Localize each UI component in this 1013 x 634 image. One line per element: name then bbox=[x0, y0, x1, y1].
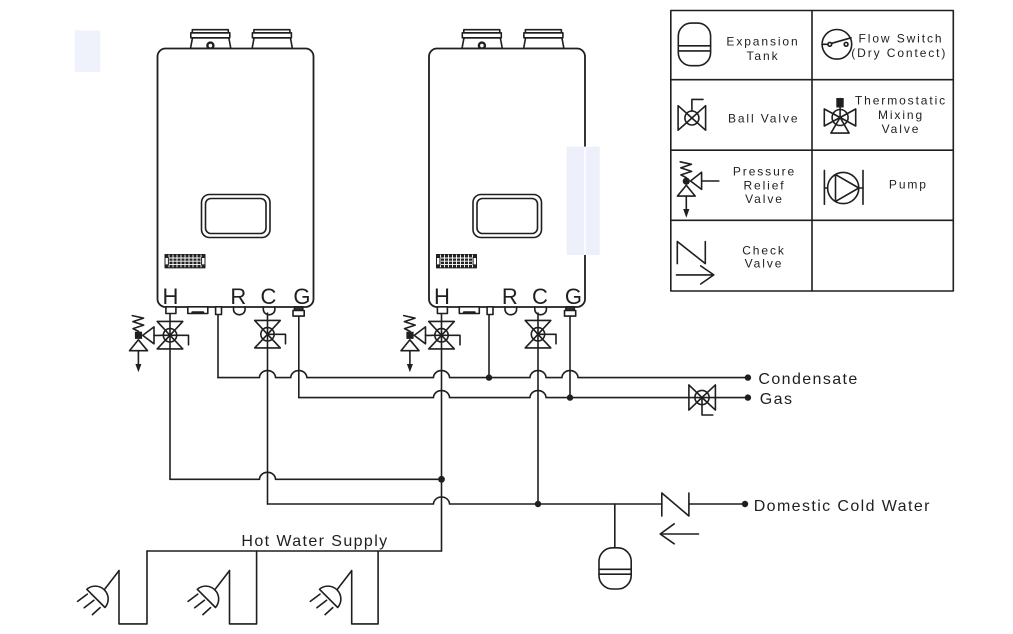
svg-text:G: G bbox=[565, 284, 582, 309]
node: cold water junction heater 2 C bbox=[535, 501, 541, 507]
wire: shower 2 piping bbox=[230, 551, 257, 624]
legend symbol: expansion tank bbox=[678, 23, 710, 66]
shower 3 arm bbox=[337, 571, 352, 591]
wire: heater 2 gas vertical pipe (G) bbox=[569, 316, 571, 398]
heater 1 body bbox=[158, 49, 314, 308]
heater 1 R port stub bbox=[216, 307, 222, 315]
node: cold water terminal dot bbox=[742, 501, 748, 507]
legend symbol: ball valve bbox=[678, 99, 706, 130]
node: condensate terminal dot bbox=[745, 374, 751, 380]
pressure relief valve PRV2 (heater 2 hot line) bbox=[401, 316, 432, 373]
water heater 2 bbox=[429, 30, 585, 316]
heater 2 display panel bbox=[473, 195, 542, 238]
legend table frame bbox=[671, 11, 954, 292]
wire: heater 1 hot water vertical pipe (H) bbox=[169, 313, 171, 479]
heater 1 G port stub bbox=[293, 307, 304, 316]
shower 2 spray lines bbox=[188, 594, 211, 615]
svg-text:C: C bbox=[532, 284, 548, 309]
legend label: Flow Switch (Dry Contect) bbox=[851, 32, 947, 60]
wire: gas horizontal line with crossover hops bbox=[299, 391, 748, 398]
wire: heater 1 recirculation pipe (R) bbox=[217, 315, 219, 378]
ball valve on heater 2 C pipe bbox=[525, 320, 556, 348]
expansion tank on cold water line bbox=[599, 504, 631, 589]
heater 2 vent grille bbox=[437, 255, 477, 268]
legend symbol: check valve bbox=[676, 242, 713, 285]
heater 1 display panel bbox=[202, 195, 271, 238]
legend symbol: thermostatic mixing valve bbox=[824, 98, 855, 133]
svg-text:Pump: Pump bbox=[889, 178, 928, 192]
heater 1 wide bottom stub bbox=[188, 307, 208, 314]
shower 3 bbox=[310, 551, 378, 624]
node: hot water junction bbox=[438, 476, 445, 483]
wire: domestic cold water horizontal line with crossover hop bbox=[268, 497, 746, 504]
wire: condensate horizontal line with crossover hops bbox=[218, 371, 748, 378]
wire: heater 2 cold water vertical pipe (C) bbox=[537, 313, 539, 504]
svg-text:Pressure: Pressure bbox=[733, 165, 796, 179]
svg-text:Gas: Gas bbox=[760, 391, 794, 408]
wire: heater 1 gas vertical pipe (G) bbox=[298, 316, 300, 398]
heater 1 vent grille bbox=[165, 255, 205, 268]
svg-text:Valve: Valve bbox=[882, 122, 921, 136]
node: condensate junction heater 2 R bbox=[486, 374, 492, 380]
shower 2 head bbox=[197, 586, 218, 607]
node: gas terminal dot bbox=[745, 394, 751, 400]
svg-text:Relief: Relief bbox=[743, 179, 785, 193]
heater 2 left vent collar bbox=[462, 30, 502, 49]
shower 1 spray lines bbox=[78, 594, 101, 615]
svg-text:R: R bbox=[502, 284, 518, 309]
svg-text:Thermostatic: Thermostatic bbox=[855, 94, 947, 108]
heater 1 H port stub bbox=[166, 307, 176, 314]
shower 3 spray lines bbox=[310, 594, 333, 615]
svg-text:Hot Water Supply: Hot Water Supply bbox=[241, 533, 388, 550]
shower 2 arm bbox=[214, 571, 229, 591]
pressure relief valve PRV1 (heater 1 hot line) bbox=[130, 316, 161, 373]
legend label: Pressure Relief Valve bbox=[733, 165, 796, 206]
legend symbol: pressure relief valve bbox=[677, 162, 718, 218]
heater 1 fitting arc under R bbox=[234, 307, 246, 315]
svg-text:H: H bbox=[434, 284, 450, 309]
heater 2 wide bottom stub bbox=[459, 307, 479, 314]
svg-text:R: R bbox=[230, 284, 246, 309]
shower 3 head bbox=[320, 586, 341, 607]
shower 1 arm bbox=[104, 571, 119, 591]
svg-text:Condensate: Condensate bbox=[758, 371, 858, 388]
node: gas junction heater 2 G bbox=[567, 394, 573, 400]
svg-text:Mixing: Mixing bbox=[878, 108, 924, 122]
heater 2 body bbox=[429, 49, 585, 308]
heater 2 fitting arc under R bbox=[505, 307, 517, 315]
ball valve on heater 1 H pipe bbox=[157, 321, 188, 349]
water heater 1 bbox=[158, 30, 314, 316]
svg-text:Expansion: Expansion bbox=[726, 35, 799, 49]
shower 1 bbox=[78, 551, 147, 624]
wire: shower 3 piping bbox=[352, 551, 378, 624]
wire: heater 1 cold water vertical pipe (C) bbox=[267, 313, 269, 504]
legend label: Expansion Tank bbox=[726, 35, 799, 63]
svg-text:H: H bbox=[163, 284, 179, 309]
svg-text:(Dry Contect): (Dry Contect) bbox=[851, 46, 947, 60]
check valve on domestic cold water line bbox=[660, 493, 698, 544]
shower 2 bbox=[188, 551, 257, 624]
heater 1 right vent collar bbox=[252, 30, 292, 49]
svg-text:Tank: Tank bbox=[747, 49, 780, 63]
svg-text:Valve: Valve bbox=[745, 256, 784, 270]
heater 2 H port stub bbox=[437, 307, 447, 314]
svg-text:G: G bbox=[293, 284, 310, 309]
heater 1 fitting arc under C bbox=[263, 307, 275, 315]
wire: heater 2 hot water vertical pipe (H) bbox=[441, 313, 443, 551]
wire: shower 1 piping bbox=[119, 551, 147, 624]
wire: hot water supply line bbox=[147, 550, 442, 552]
heater 1 left vent collar bbox=[191, 30, 231, 49]
wire: hot water horizontal line with crossover hop bbox=[170, 472, 442, 479]
legend label: Check Valve bbox=[742, 244, 786, 271]
svg-text:Flow Switch: Flow Switch bbox=[859, 32, 944, 46]
wire: heater 2 recirculation pipe (R) bbox=[488, 315, 490, 378]
watermark rectangle over heater 2 bbox=[567, 147, 600, 255]
ball valve on heater 2 H pipe bbox=[429, 321, 460, 349]
heater 2 fitting arc under C bbox=[535, 307, 547, 315]
watermark rectangle top-left bbox=[75, 31, 100, 72]
svg-text:Domestic Cold Water: Domestic Cold Water bbox=[754, 498, 931, 515]
legend symbol: flow switch bbox=[822, 30, 852, 60]
heater 2 R port stub bbox=[487, 307, 493, 315]
heater 2 G port stub bbox=[565, 307, 576, 316]
legend label: Thermostatic Mixing Valve bbox=[855, 94, 947, 137]
svg-text:C: C bbox=[261, 284, 277, 309]
ball valve on heater 1 C pipe bbox=[255, 320, 286, 348]
shower 1 head bbox=[87, 586, 108, 607]
legend symbol: pump bbox=[824, 170, 863, 204]
ball valve on gas line bbox=[689, 385, 716, 415]
svg-text:Valve: Valve bbox=[745, 192, 784, 206]
heater 2 right vent collar bbox=[524, 30, 564, 49]
svg-text:Ball Valve: Ball Valve bbox=[728, 112, 799, 126]
